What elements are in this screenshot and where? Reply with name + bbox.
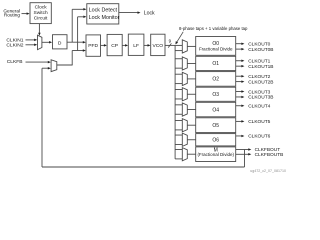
divider D — [53, 35, 68, 49]
wire bus taps to mux O2 — [175, 74, 182, 83]
output CLKOUT5 label — [248, 119, 270, 125]
lock detect monitor block — [87, 4, 120, 24]
wire D to PFD — [67, 41, 86, 44]
wire CLKFB — [26, 61, 51, 64]
wire mux to divider O1 — [187, 62, 195, 64]
svg-text:CLKOUT3B: CLKOUT3B — [248, 95, 273, 101]
output CLKOUT0B label — [248, 47, 273, 53]
svg-text:O4: O4 — [212, 107, 219, 113]
divider O1 — [196, 56, 236, 70]
wire output CLKFBOUTB — [236, 153, 252, 156]
wire output CLKOUT2B — [236, 80, 245, 83]
output CLKOUT2 label — [248, 74, 270, 80]
svg-text:CLKOUT3: CLKOUT3 — [248, 89, 270, 95]
wire output CLKOUT4 — [236, 104, 245, 107]
wire PFD to CP — [101, 44, 107, 47]
phase frequency detector PFD — [86, 35, 101, 56]
leader line to bus — [175, 32, 183, 45]
vco U1 — [151, 34, 165, 55]
svg-text:CLKFBOUTB: CLKFBOUTB — [255, 152, 284, 158]
wire mux2 out — [57, 64, 73, 66]
wire bus taps to mux O1 — [175, 59, 182, 68]
svg-text:Circuit: Circuit — [34, 16, 48, 22]
svg-text:CLKOUT2B: CLKOUT2B — [248, 79, 273, 85]
svg-text:CP: CP — [111, 43, 118, 49]
wire node to lock detect — [72, 8, 86, 42]
mux M2 feedback select — [51, 60, 57, 72]
mux phase select O5 — [182, 119, 187, 132]
svg-text:CLKIN2: CLKIN2 — [6, 42, 23, 48]
svg-text:D: D — [58, 40, 62, 46]
divider O2 — [196, 72, 236, 87]
wire output CLKOUT2 — [236, 75, 245, 78]
divider O6 — [196, 134, 236, 146]
wire output CLKOUT1B — [236, 65, 245, 68]
output CLKOUT6 label — [248, 134, 270, 140]
wire output CLKOUT1 — [236, 59, 245, 62]
wire mux to divider O5 — [187, 124, 195, 126]
wire output CLKOUT3 — [236, 90, 245, 93]
svg-text:Routing: Routing — [4, 13, 21, 18]
divider O3 — [196, 87, 236, 101]
svg-text:ug472_c2_07_081710: ug472_c2_07_081710 — [250, 169, 286, 173]
divider M — [196, 147, 236, 162]
wire output CLKOUT3B — [236, 96, 245, 99]
mux phase select O3 — [182, 88, 187, 101]
mux phase select O4 — [182, 103, 187, 116]
wire output CLKFBOUT — [236, 148, 252, 151]
svg-text:O5: O5 — [212, 123, 219, 129]
output CLKOUT3B label — [248, 95, 273, 101]
wire output CLKOUT5 — [236, 120, 245, 123]
svg-text:Clock: Clock — [35, 5, 48, 11]
svg-text:VCO: VCO — [152, 43, 163, 49]
figure reference number — [250, 169, 286, 173]
wire mux to divider O6 — [187, 139, 195, 141]
wire mux to D — [42, 41, 52, 44]
svg-text:(Fractional Divide): (Fractional Divide) — [197, 152, 234, 157]
wire output CLKOUT6 — [236, 135, 245, 138]
wire mux to divider O0 — [187, 45, 195, 47]
input CLKIN1 label — [6, 37, 23, 43]
wire feedback into mux — [42, 67, 51, 70]
wire bus taps to mux O4 — [175, 105, 182, 114]
wire bus taps to mux O5 — [175, 121, 182, 130]
svg-text:Lock Detect: Lock Detect — [89, 8, 118, 14]
svg-text:Switch: Switch — [34, 10, 48, 16]
bus width slash 9 — [168, 38, 171, 47]
output CLKOUT4 label — [248, 103, 270, 109]
svg-text:Fractional Divide: Fractional Divide — [199, 47, 233, 52]
wire general routing to clock switch — [22, 12, 30, 15]
output Lock label — [144, 11, 155, 17]
wire bus taps to mux M — [175, 150, 182, 159]
wire CLKFBOUT feedback loop — [42, 68, 245, 167]
svg-text:CLKOUT1B: CLKOUT1B — [248, 64, 273, 70]
wire bus taps to mux O0 — [175, 45, 182, 50]
wire clock switch select — [38, 24, 41, 36]
input CLKIN2 label — [6, 42, 23, 48]
output CLKOUT1 label — [248, 58, 270, 64]
svg-text:Lock Monitor: Lock Monitor — [89, 15, 120, 21]
wire output CLKOUT0B — [236, 48, 245, 51]
svg-text:PFD: PFD — [88, 43, 98, 49]
mux M1 input clock select — [38, 35, 42, 49]
label 8-phase taps — [179, 26, 248, 31]
divider O5 — [196, 118, 236, 133]
mux phase select O1 — [182, 57, 187, 70]
svg-text:O3: O3 — [212, 92, 219, 98]
wire LF to VCO — [144, 44, 151, 47]
output CLKOUT2B label — [248, 79, 273, 85]
svg-text:CLKOUT1: CLKOUT1 — [248, 58, 270, 64]
mux phase select M — [182, 148, 187, 161]
svg-text:O6: O6 — [212, 137, 219, 143]
mux phase select O0 — [182, 40, 187, 53]
wire feedback riser to PFD — [72, 49, 86, 65]
svg-text:CLKFB: CLKFB — [7, 59, 23, 65]
wire CLKIN1 — [26, 39, 38, 42]
mux phase select O2 — [182, 72, 187, 85]
wire bus taps to mux O6 — [175, 135, 182, 144]
divider O0 — [196, 37, 236, 56]
wire CP to LF — [122, 44, 128, 47]
svg-text:CLKOUT6: CLKOUT6 — [248, 134, 270, 140]
loop filter LF — [128, 34, 144, 55]
svg-text:CLKOUT4: CLKOUT4 — [248, 103, 270, 109]
wire bus taps to mux O3 — [175, 90, 182, 99]
wire mux to divider O3 — [187, 93, 195, 95]
wire output CLKOUT0 — [236, 42, 245, 45]
divider O4 — [196, 102, 236, 117]
output CLKOUT0 label — [248, 41, 270, 47]
clock switch circuit CSC — [30, 3, 51, 24]
wire VCO output bus — [165, 44, 175, 46]
general routing label — [3, 8, 20, 17]
svg-text:Lock: Lock — [144, 11, 155, 17]
wire mux to divider O4 — [187, 109, 195, 111]
output CLKFBOUTB label — [255, 152, 284, 158]
wire CLKIN2 — [26, 44, 38, 47]
svg-text:CLKOUT5: CLKOUT5 — [248, 119, 270, 125]
svg-text:CLKOUT0: CLKOUT0 — [248, 41, 270, 47]
svg-text:O1: O1 — [212, 61, 219, 67]
wire lock output — [119, 11, 141, 14]
input CLKFB label — [7, 59, 23, 65]
output CLKFBOUT label — [255, 147, 281, 153]
wire branch to lock monitor — [78, 16, 87, 51]
svg-text:8-phase taps + 1 variable phas: 8-phase taps + 1 variable phase tap — [179, 26, 248, 31]
svg-text:CLKOUT2: CLKOUT2 — [248, 74, 270, 80]
mux phase select O6 — [182, 133, 187, 146]
svg-text:O2: O2 — [212, 77, 219, 83]
charge pump CP — [107, 34, 122, 55]
svg-text:CLKOUT0B: CLKOUT0B — [248, 47, 273, 53]
wire mux to divider O2 — [187, 78, 195, 80]
wire mux to divider M — [187, 153, 195, 155]
bus vertical — [174, 45, 176, 158]
svg-text:LF: LF — [133, 43, 139, 49]
output CLKOUT3 label — [248, 89, 270, 95]
output CLKOUT1B label — [248, 64, 273, 70]
